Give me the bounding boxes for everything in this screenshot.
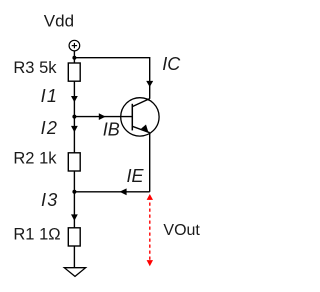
svg-text:I3: I3 (41, 190, 59, 210)
transistor Q1 circle (121, 98, 159, 136)
wire top horizontal to collector (74, 57, 149, 59)
junction dot below source (72, 56, 76, 60)
current arrow IB (99, 113, 106, 120)
wire emitter vertical (149, 132, 151, 191)
current arrow IE (120, 188, 127, 195)
current arrow I3 (71, 214, 78, 220)
svg-text:I1: I1 (41, 86, 59, 106)
junction node at emitter wire (72, 190, 76, 194)
svg-text:Vdd: Vdd (44, 12, 74, 31)
VOut red arrowhead top (147, 194, 153, 200)
transistor Q1 emitter diagonal (132, 126, 149, 132)
transistor Q1 base bar (131, 104, 133, 131)
wire base horizontal (74, 116, 132, 118)
wire R2 bottom to R1 top (73, 171, 75, 228)
wire R1 bottom to ground (73, 246, 75, 268)
wire source to R3 top (73, 51, 75, 64)
wire emitter horizontal (74, 191, 149, 193)
junction node at base wire (72, 115, 76, 119)
svg-text:IB: IB (103, 120, 120, 140)
svg-text:I2: I2 (41, 118, 59, 138)
svg-text:R1 1Ω: R1 1Ω (13, 225, 60, 243)
VOut red dashed arrow line (149, 197, 151, 262)
resistor R3 (box) (68, 63, 80, 81)
wire collector vertical (149, 57, 151, 99)
svg-text:VOut: VOut (163, 222, 200, 239)
current arrow I1 (71, 96, 78, 102)
wire R3 bottom to R2 top (73, 81, 75, 153)
resistor R1 (box) (68, 228, 80, 246)
resistor R2 (box) (68, 153, 80, 171)
voltage source V1 (circle with plus) (69, 40, 80, 51)
ground symbol (64, 268, 85, 277)
transistor Q1 emitter arrowhead (141, 125, 148, 133)
svg-text:R3 5k: R3 5k (13, 59, 57, 77)
current arrow I2 (71, 126, 78, 132)
svg-text:R2 1k: R2 1k (13, 149, 57, 167)
svg-text:IC: IC (162, 54, 181, 74)
svg-text:IE: IE (127, 166, 145, 186)
VOut red arrowhead bottom (147, 260, 153, 266)
transistor Q1 collector diagonal (132, 99, 149, 107)
current arrow IC (146, 81, 153, 87)
